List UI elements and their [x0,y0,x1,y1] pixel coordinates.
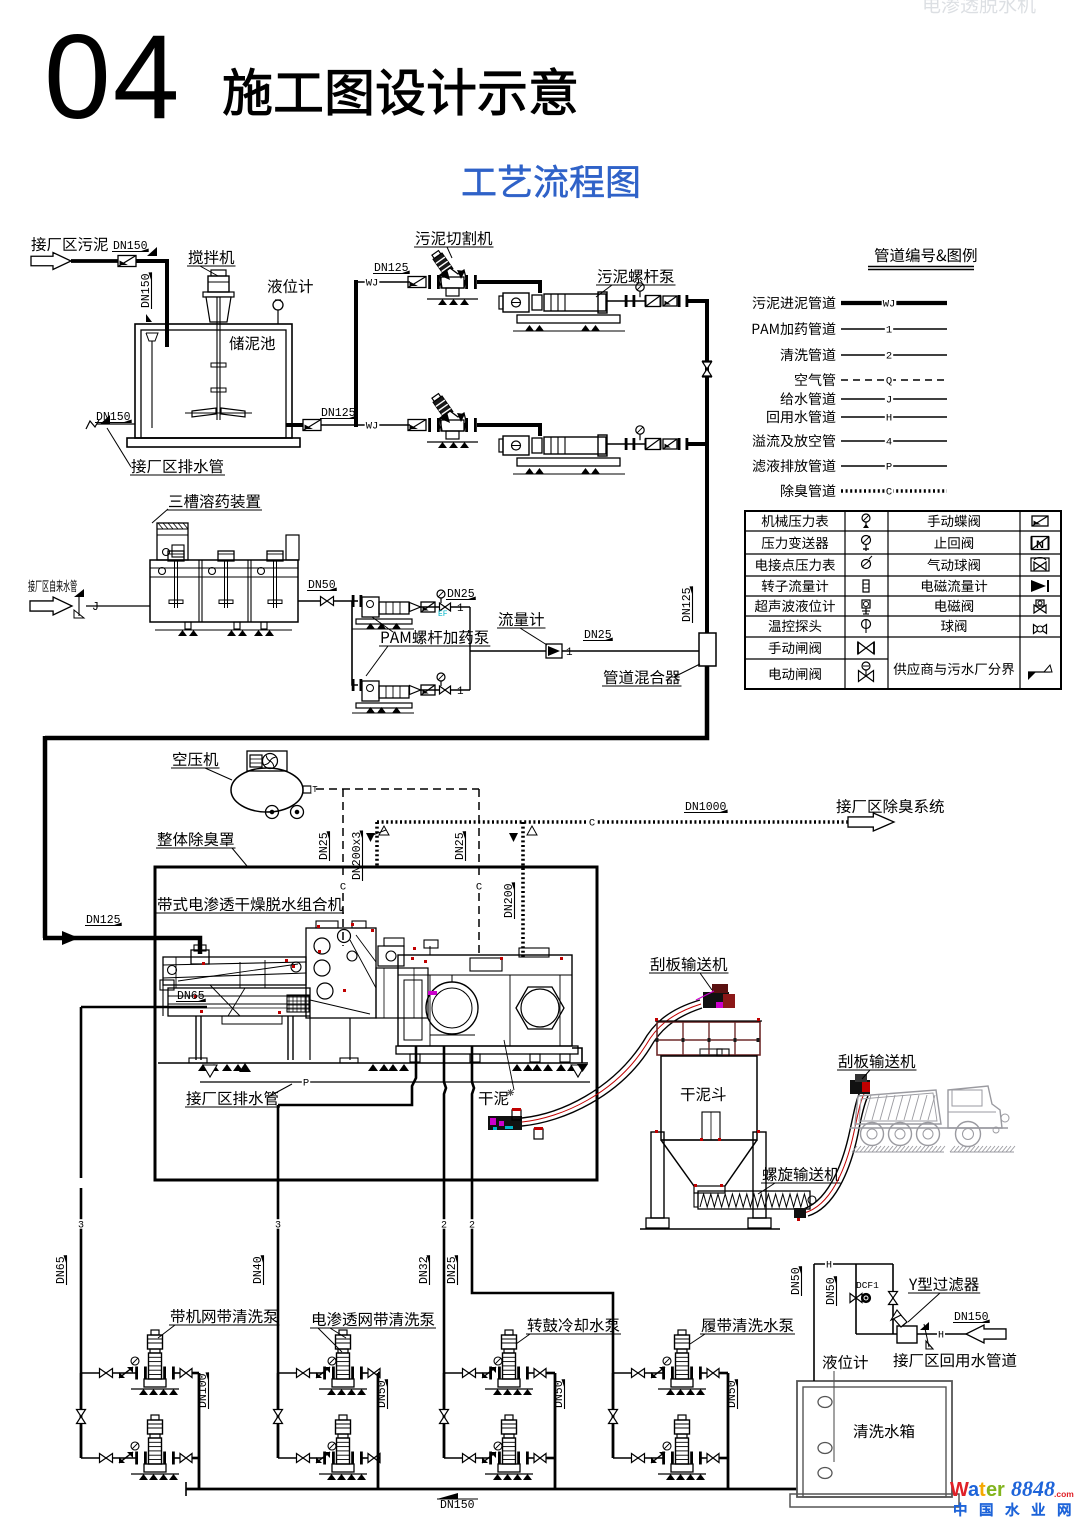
wire bottom cutter line [356,424,410,426]
table row 超声波液位计 / 电磁阀 [755,600,835,613]
table row 电接点压力表 / 气动球阀 [756,559,835,571]
wire pump to downcomer bottom [687,442,709,446]
wire strainer to inlet [917,1333,968,1335]
valve on downcomer [703,362,712,369]
main riser pipe DN125 [354,280,358,427]
svg-text:2: 2 [886,350,892,362]
legend row 清洗管道 [780,348,835,361]
wire water to dissolver [86,605,150,607]
svg-text:04: 04 [44,10,181,144]
dosing pump PAM upper [352,595,355,607]
wire dissolver outlet DN50 [298,600,320,602]
svg-text:DN150: DN150 [440,1499,475,1512]
svg-text:C: C [589,817,595,829]
svg-text:DCF1: DCF1 [856,1280,879,1291]
label 整体除臭罩 [158,832,234,846]
flanges before cutter bottom [428,418,431,432]
legend row PAM加药管道 [753,322,836,335]
legend row 溢流及放空管 [753,434,836,447]
wire valve to main riser [321,424,358,426]
legend row 除臭管道 [781,484,835,497]
mixer impeller [192,408,216,417]
svg-text:T: T [312,785,318,795]
label 接厂区污泥 [31,237,107,251]
valve cone on feed line [62,931,79,945]
label 干泥 [479,1091,508,1105]
mixer shaft [216,297,218,420]
Y strainer [897,1326,917,1343]
dissolver legs and feet [185,622,191,629]
deodorize dotted drop left [375,822,379,867]
label 污泥螺杆泵 [598,269,674,283]
reuse water pipes [813,1264,815,1381]
dump truck [855,1090,941,1124]
svg-text:J: J [886,394,892,406]
label 接厂区排水管 tank [131,459,223,473]
hopper body [661,1056,757,1140]
svg-text:8848: 8848 [1011,1476,1055,1501]
bypass branch 2 [892,1264,894,1334]
svg-text:3: 3 [78,1220,84,1231]
wire cutter to pump top [477,282,540,293]
svg-text:C: C [476,881,482,893]
screw pump 污泥螺杆泵 top [499,296,503,309]
svg-text:H: H [938,1330,944,1341]
label 清洗水箱 [854,1424,915,1438]
wire dosing collector [469,607,471,690]
legend row 回用水管道 [767,410,835,423]
wire top cutter line [356,281,410,283]
machine drum hexagon [516,987,564,1029]
tank outlet wire [286,423,303,427]
svg-text:WJ: WJ [366,420,379,432]
machine roller tower [306,928,376,1018]
machine drum section box [398,955,572,1046]
table row 机械压力表 / 手动蝶阀 [762,515,829,527]
water inflow hollow arrow [30,597,72,615]
wash line DN32 drop [444,1046,446,1373]
svg-text:WJ: WJ [883,298,896,310]
downcomer pipe to mixer [705,299,709,636]
svg-text:3: 3 [275,1220,281,1231]
wire to flow meter [470,650,546,652]
scraper conveyor 2 curve [800,1092,860,1210]
flow meter 流量计 [546,644,562,658]
pump group 履带清洗水泵 [613,1372,664,1374]
tank level marks [818,1397,832,1408]
svg-text:.com: .com [1054,1489,1074,1499]
sludge cutter 污泥切割机 bottom [431,393,453,418]
drain line P [200,1081,590,1083]
label Y型过滤器 [909,1277,979,1291]
pump group 电渗透网带清洗泵 [278,1372,325,1374]
hopper top rim railing [657,1022,760,1055]
machine lower frame [168,988,310,1016]
dissolver main tank [150,560,298,622]
valve butterfly bottom cutter line [408,420,426,431]
arrow 接厂区除臭系统 [848,813,894,831]
dissolver right overflow box [286,535,299,560]
svg-text:e: e [986,1479,997,1501]
wire inflow to valve [71,259,118,263]
subtitle 工艺流程图 [463,165,638,198]
tank internal overflow funnel [146,333,158,341]
valve butterfly top cutter line [408,277,426,288]
table row 压力变送器 / 止回阀 [762,537,829,550]
label 接厂区排水管 machine [186,1091,278,1105]
svg-text:2: 2 [441,1220,447,1231]
suction collector DN150 [186,1488,797,1491]
flanges before cutter top [428,275,431,289]
screw pump 污泥螺杆泵 bottom [499,439,503,452]
legend title 管道编号图例 [875,248,977,262]
tank 储泥池 walls [135,324,292,438]
pump discharge fittings top [607,300,646,302]
wire pump to downcomer top [687,299,709,303]
legend table frame [745,511,1061,689]
label 污泥切割机 [416,231,493,245]
svg-text:1: 1 [457,603,464,615]
valve manual butterfly on inflow [118,256,136,267]
label 空压机 [173,752,218,766]
legend row 给水管道 [780,392,835,405]
label 带式电渗透干燥脱水组合机 [158,897,343,911]
svg-text:r: r [997,1479,1005,1501]
scraper head 2 [850,1080,870,1094]
wire mixer outlet loop pipe [45,666,707,738]
machine legs left [195,1016,197,1060]
svg-text:H: H [886,412,892,424]
dosing pump upper discharge [409,606,470,608]
dissolver feeder hopper [157,523,188,560]
bypass branch with DCF1 valve [855,1264,857,1334]
watermark 电渗透脱水机 [924,0,1035,14]
scraper head 1 [703,992,729,1008]
hopper legs [651,1132,664,1218]
machine base [396,1046,578,1054]
air pipe dashed drop right [478,789,480,878]
reducer tick [147,247,157,256]
machine feed inlet [191,950,209,964]
dosing pump lower discharge [409,689,470,691]
label 干泥斗 [681,1087,726,1101]
compressor fan box [247,751,287,771]
table row 电动闸阀 [770,668,821,680]
svg-text:W: W [950,1479,969,1501]
flanges after cutter bottom [465,418,468,432]
supply boundary flag [74,589,84,597]
table row 手动闸阀 [769,642,821,654]
mixer 搅拌机 motor [211,270,226,276]
tank drain squiggle 接厂区排水管 [86,420,99,429]
screw conveyor 螺旋输送机 [698,1191,810,1209]
label 储泥池 [229,336,275,350]
air compressor tank [231,768,303,812]
tank base plate [127,438,300,447]
sludge cutter 污泥切割机 top [431,250,453,275]
wash line DN65 drop [80,1007,83,1178]
wire inflow elbow into tank [136,261,167,347]
wire cutter to pump bottom [477,425,540,436]
label 接厂区自来水管 [28,580,77,593]
svg-text:P: P [886,461,892,473]
label 接厂区回用水管道 [893,1353,1016,1367]
page title 施工图设计示意 [224,68,576,116]
table row 温控探头 / 球阀 [769,620,822,632]
svg-text:P: P [303,1077,309,1089]
machine extra frame details [397,975,399,1046]
valve on dosing suction [321,597,328,606]
label 三槽溶药装置 [169,494,260,508]
machine outlet right elbow [572,1048,582,1063]
wash line DN25 drop [472,1046,613,1373]
deodorize dotted drop right DN200 [521,822,525,960]
compressor outlet [303,786,311,793]
dissolver mixers [168,551,184,561]
wash line DN40 drop [278,1046,416,1105]
svg-text:2: 2 [469,1220,475,1231]
arrow DN150 reuse inlet [966,1325,1006,1343]
deodorize duct dotted horizontal DN1000 [377,820,850,824]
svg-text:Q: Q [886,375,892,387]
label 螺旋输送机 [763,1167,840,1181]
svg-text:4: 4 [886,436,892,448]
svg-text:C: C [886,486,892,498]
legend row 空气管 [795,373,835,386]
legend row 滤液排放管道 [753,459,836,472]
level gauge 液位计 on tank [268,279,313,293]
svg-text:EF: EF [438,610,448,619]
svg-text:H: H [826,1260,832,1271]
wire split to two dosing pumps [352,601,358,685]
svg-text:N: N [1036,539,1044,551]
dosing pump PAM lower [352,679,355,691]
table merged cell 供应商与污水厂分界 [894,663,1015,676]
label 刮板输送机 2 [839,1054,916,1068]
wire meter to pipe mixer [562,650,699,652]
svg-text:WJ: WJ [366,277,379,289]
dry sludge discharger [488,1116,522,1130]
flanges after cutter top [465,275,468,289]
pump group 转鼓冷却水泵 [444,1372,491,1374]
machine ground line [158,1062,588,1064]
pipe mixer 管道混合器 [699,633,716,666]
label 刮板输送机 1 [651,957,728,971]
svg-text:C: C [340,881,346,893]
legend row 污泥进泥管道 [753,296,836,309]
label 搅拌机 [189,250,235,264]
machine belt press left section [163,957,306,985]
table row 转子流量计 / 电磁流量计 [762,580,828,592]
level gauge 液位计 tank [823,1355,868,1369]
svg-text:J: J [92,601,99,614]
tank 清洗水箱 [797,1381,952,1497]
pump discharge fittings bottom [607,443,646,445]
air pipe dashed drop left [342,789,344,878]
hood box 整体除臭罩 [155,867,597,1180]
svg-text:1: 1 [566,647,573,659]
svg-text:1: 1 [886,324,892,336]
svg-text:t: t [979,1479,986,1501]
valve butterfly tank outlet [303,420,321,431]
pump group 带机网带清洗泵 [81,1372,137,1374]
compressor wheels [266,806,279,819]
scraper conveyor 1 curve [522,1000,700,1118]
machine mid gearbox [378,946,404,966]
label PAM螺杆加药泵 [382,630,489,644]
label 管道混合器 [604,670,680,684]
svg-text:1: 1 [457,686,464,698]
hopper funnel [661,1140,694,1186]
inflow hollow arrow [31,253,71,270]
logo 中国水业网 [954,1503,966,1516]
air pipe dashed horizontal [316,788,479,790]
